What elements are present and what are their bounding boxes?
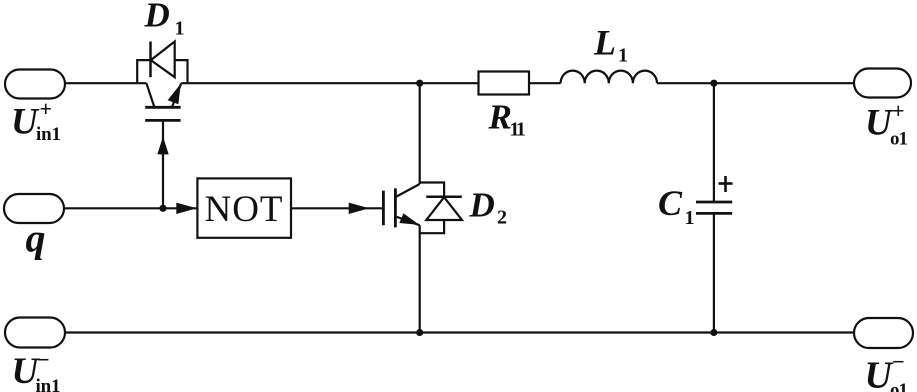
diode D2 bottom stub (420, 220, 444, 233)
transistor Q(D2) emitter leg (396, 217, 420, 226)
diode D1 right stub (175, 60, 188, 83)
svg-text:o1: o1 (890, 129, 908, 150)
diode D2 cathode bar (426, 196, 462, 199)
label D2 (469, 186, 508, 229)
wire C1 branch top (713, 83, 715, 201)
terminal U+in1 oval (5, 70, 65, 99)
capacitor C1 bottom plate (696, 212, 732, 215)
label U-o1 (865, 349, 909, 392)
svg-text:11: 11 (510, 118, 525, 140)
svg-text:NOT: NOT (205, 189, 283, 230)
label R11 (488, 97, 525, 140)
wire NOT output to D2 gate (291, 207, 383, 209)
resistor R11 box (479, 72, 530, 95)
node dot top D2 (416, 80, 423, 87)
inductor L1 (561, 71, 657, 84)
terminal U-in1 oval (5, 318, 65, 348)
svg-text:L: L (593, 22, 616, 62)
transistor Q(D2) emitter arrow (399, 213, 419, 225)
svg-text:R: R (488, 97, 512, 136)
node junction q (159, 205, 166, 212)
transistor Q(D1) collector leg (146, 83, 154, 106)
diode D2 triangle (426, 197, 462, 220)
label U+in1 (11, 96, 61, 145)
label U-in1 (12, 347, 61, 392)
node dot bottom D2 (416, 329, 423, 336)
wire q (64, 207, 197, 209)
svg-text:1: 1 (618, 45, 628, 67)
terminal q oval (4, 194, 64, 223)
label C1 (658, 183, 695, 229)
wire top middle segment (181, 82, 478, 84)
arrow on NOT output (349, 203, 370, 214)
arrow into NOT (176, 203, 197, 214)
transistor Q(D1) emitter leg (172, 83, 181, 106)
svg-text:+: + (40, 96, 53, 121)
transistor Q(D2) collector leg (395, 184, 419, 197)
node dot C1 bottom (710, 329, 717, 336)
diode D2 top stub (420, 183, 444, 197)
wire top left segment (65, 82, 146, 84)
svg-text:q: q (26, 216, 46, 261)
svg-text:−: − (892, 349, 905, 374)
wire D1 gate lead (162, 120, 164, 208)
diode D1 triangle (151, 42, 175, 78)
wire C1 branch bottom (713, 213, 715, 332)
node dot C1 top (710, 80, 717, 87)
wire D2 branch bottom (419, 225, 421, 332)
terminal U+o1 oval (854, 69, 911, 98)
svg-text:o1: o1 (890, 380, 908, 392)
svg-text:1: 1 (685, 207, 695, 229)
label L1 (593, 22, 628, 66)
NOT gate box (197, 178, 291, 237)
capacitor C1 top plate (696, 201, 732, 204)
wire D2 branch top (419, 83, 421, 184)
wire inductor to right terminal (657, 82, 854, 84)
svg-text:2: 2 (497, 207, 507, 229)
arrow up on gate lead (157, 137, 168, 155)
wire bottom (64, 331, 854, 333)
svg-text:C: C (658, 183, 683, 223)
transistor Q(D1) gate bar (145, 119, 180, 122)
transistor Q(D1) emitter arrow (168, 84, 181, 104)
label D1 (144, 0, 185, 40)
svg-text:+: + (892, 98, 905, 123)
wire resistor to inductor (529, 82, 561, 84)
transistor Q(D1) body bar (145, 106, 180, 109)
terminal U-o1 oval (854, 318, 913, 348)
svg-text:D: D (144, 0, 170, 35)
svg-text:in1: in1 (36, 376, 61, 392)
capacitor plus sign (719, 176, 733, 192)
svg-text:in1: in1 (36, 124, 61, 145)
label U+o1 (865, 98, 908, 150)
svg-text:D: D (469, 186, 495, 225)
transistor Q(D2) gate bar (382, 191, 385, 226)
transistor Q(D2) body bar (394, 188, 397, 227)
diode D1 cathode bar (149, 42, 152, 78)
diode D1 left stub (137, 60, 150, 83)
svg-text:1: 1 (175, 18, 185, 40)
svg-text:−: − (37, 347, 50, 372)
